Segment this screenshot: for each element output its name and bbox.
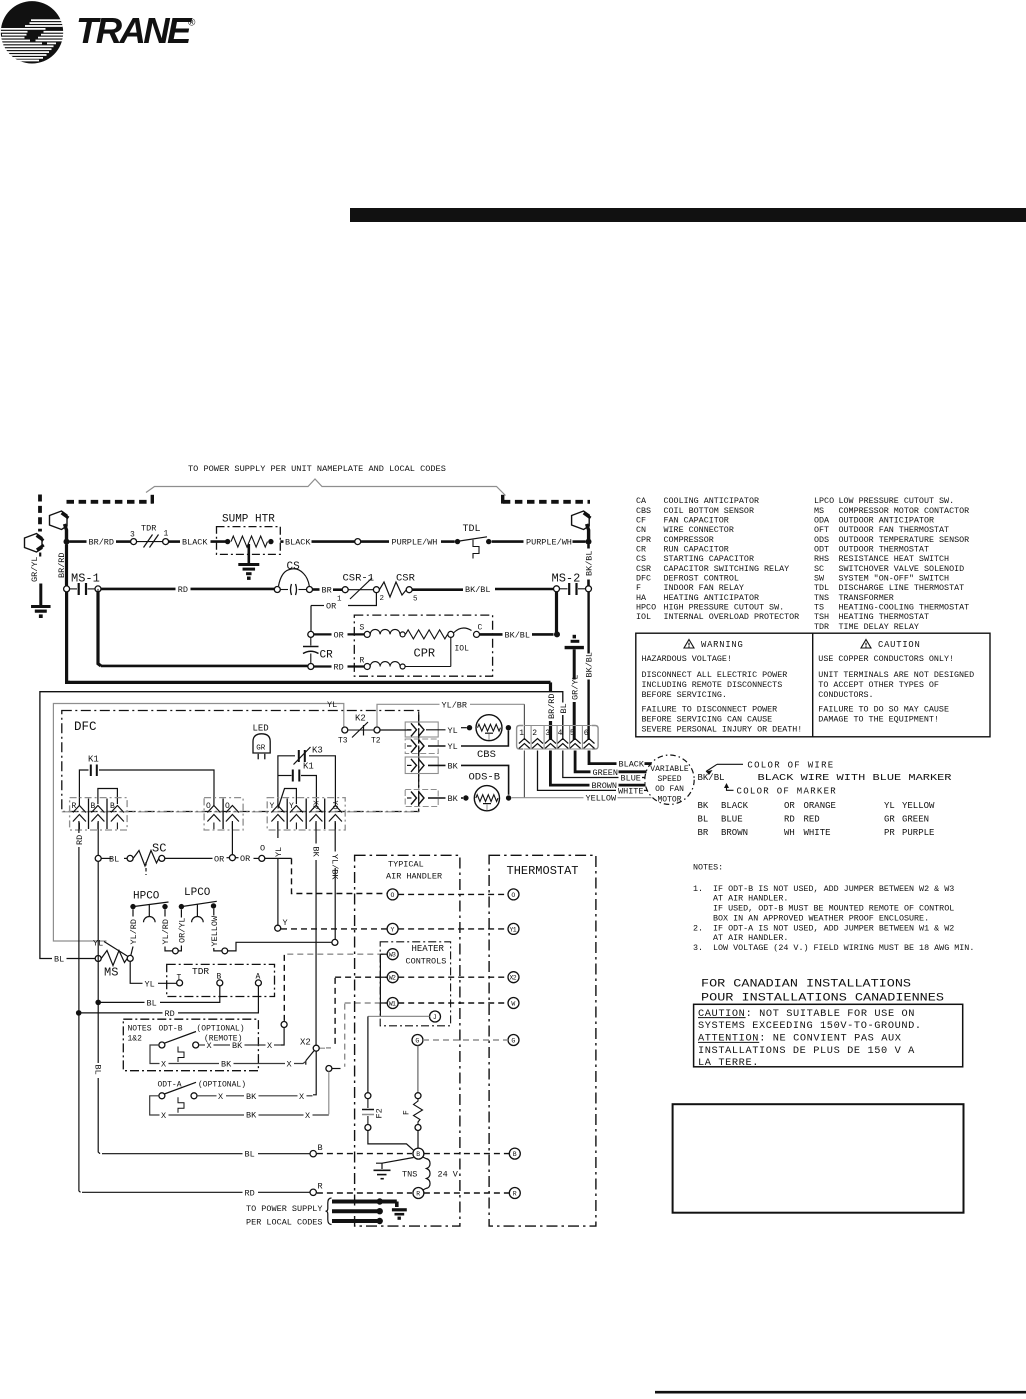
svg-text:LOW VOLTAGE (24 V.) FIELD WIRI: LOW VOLTAGE (24 V.) FIELD WIRING MUST BE…: [713, 943, 974, 953]
svg-text:(OPTIONAL): (OPTIONAL): [198, 1081, 246, 1090]
svg-text:OR: OR: [784, 801, 795, 811]
svg-text:ODS-B: ODS-B: [469, 772, 501, 784]
wire YL row1 (K2 to CBS): [380, 726, 467, 736]
svg-text:BLACK: BLACK: [182, 538, 208, 548]
sensor CBS (coil bottom sensor): [467, 715, 511, 761]
svg-text:SPEED: SPEED: [657, 775, 681, 784]
svg-text:OUTDOOR THERMOSTAT: OUTDOOR THERMOSTAT: [839, 545, 929, 555]
svg-text:TO POWER SUPPLY: TO POWER SUPPLY: [246, 1204, 323, 1214]
svg-text:2.: 2.: [693, 923, 703, 933]
svg-text:YO: YO: [330, 801, 338, 811]
svg-text:TS: TS: [814, 602, 824, 612]
svg-text:CN: CN: [636, 525, 646, 535]
thermostat terminal G: [508, 1035, 519, 1046]
wire YL (MS to TDR T): [130, 961, 176, 989]
svg-text:O: O: [206, 802, 211, 811]
blank approval box: [673, 1104, 964, 1213]
svg-text:GR/YL: GR/YL: [30, 556, 40, 582]
svg-text:DISCONNECT ALL ELECTRIC POWER: DISCONNECT ALL ELECTRIC POWER: [642, 670, 788, 680]
node Y field splice: [275, 918, 288, 931]
svg-text:UNIT TERMINALS ARE NOT DESIGNE: UNIT TERMINALS ARE NOT DESIGNED: [818, 670, 974, 680]
svg-text:BK/BL: BK/BL: [465, 585, 491, 595]
svg-text:BR/RD: BR/RD: [89, 538, 115, 548]
air handler terminal J: [430, 1011, 441, 1022]
svg-text:TNS: TNS: [402, 1170, 417, 1180]
Canadian installations caution box: [694, 979, 963, 1070]
svg-text:K1: K1: [303, 762, 314, 772]
svg-text:2: 2: [380, 595, 385, 603]
fuse F2: [362, 1093, 385, 1131]
svg-text:YL/RD: YL/RD: [129, 919, 139, 945]
svg-text:FAN CAPACITOR: FAN CAPACITOR: [664, 516, 729, 526]
thermostat terminal W: [508, 998, 519, 1009]
svg-text:FOR CANADIAN INSTALLATIONS: FOR CANADIAN INSTALLATIONS: [701, 979, 911, 991]
air handler box (TYPICAL AIR HANDLER): [355, 855, 460, 1226]
capacitor CR (run capacitor): [303, 631, 333, 669]
time delay relay TDR box: [167, 964, 275, 996]
wire YELLOW (LPCO right to YO splice): [210, 909, 222, 951]
wire (F to terminal B): [417, 1131, 419, 1149]
svg-text:BK/BL: BK/BL: [585, 652, 595, 678]
DFC box right edge through connectors: [418, 712, 420, 811]
wire PURPLE/WH (TDL to supply right): [492, 538, 586, 548]
thermostat TDL (discharge line thermostat): [455, 524, 492, 559]
svg-text:BK/BL: BK/BL: [505, 630, 531, 640]
svg-text:TDL: TDL: [814, 583, 829, 593]
wire Y dashed (to air handler Y): [281, 928, 387, 930]
svg-text:Y1: Y1: [510, 926, 517, 933]
ground (power supply): [392, 1210, 407, 1220]
svg-text:CPR: CPR: [414, 647, 436, 661]
svg-text:1.: 1.: [693, 884, 703, 894]
wire J (J terminal to F2 fuse): [368, 1016, 430, 1092]
svg-text:SYSTEM "ON-OFF" SWITCH: SYSTEM "ON-OFF" SWITCH: [839, 573, 950, 583]
svg-text:BLACK WIRE WITH BLUE MARKER: BLACK WIRE WITH BLUE MARKER: [758, 773, 953, 783]
wire X-BK-X (ODT-B row1): [199, 1041, 281, 1051]
air handler terminal W3: [387, 949, 398, 960]
svg-text:W2: W2: [389, 975, 396, 982]
svg-text:USE COPPER CONDUCTORS ONLY!: USE COPPER CONDUCTORS ONLY!: [818, 654, 954, 664]
svg-text:Y: Y: [270, 802, 275, 811]
wire OR (CR to CPR S): [314, 630, 364, 640]
node RD junction (to TDR A): [76, 1010, 82, 1016]
svg-text:SC: SC: [814, 564, 824, 574]
wire YL (Y terminal down to field Y): [274, 821, 284, 925]
svg-text:SC: SC: [152, 842, 166, 856]
wire BL (to field B terminal): [102, 1150, 310, 1160]
thermostat terminal B: [509, 1148, 520, 1159]
thermostat terminal X2: [508, 972, 519, 983]
svg-text:F2: F2: [375, 1108, 385, 1118]
svg-text:F: F: [403, 1110, 412, 1115]
svg-text:RHS: RHS: [814, 554, 829, 564]
switch MS (defrost relay contact): [95, 951, 133, 980]
svg-text:TRANE: TRANE: [76, 10, 193, 51]
svg-text:INSTALLATIONS DE PLUS DE 150 V: INSTALLATIONS DE PLUS DE 150 V A: [698, 1045, 915, 1057]
svg-text:IOL: IOL: [636, 612, 651, 622]
svg-text:PURPLE: PURPLE: [902, 828, 934, 838]
svg-text:MOTOR: MOTOR: [657, 795, 681, 804]
wire BR/RD vertical (supply to MS-1): [57, 544, 67, 586]
relay contact K2 (T3-T2): [338, 714, 381, 746]
sump heater box (SUMP HTR): [217, 514, 281, 555]
svg-text:CBS: CBS: [477, 749, 496, 761]
thermostat box (THERMOSTAT): [489, 855, 596, 1226]
TDR terminal A: [255, 973, 261, 986]
svg-text:1: 1: [164, 530, 169, 539]
svg-text:X: X: [305, 1111, 310, 1121]
wire W1 dashed (air handler to thermostat W): [398, 1002, 508, 1004]
svg-text:CONTROLS: CONTROLS: [406, 957, 447, 967]
svg-text:CONDUCTORS.: CONDUCTORS.: [818, 690, 873, 700]
thermostat terminal R: [509, 1188, 520, 1199]
svg-text:BL: BL: [559, 703, 569, 713]
svg-text:TDR: TDR: [192, 966, 209, 977]
svg-text:HPCO: HPCO: [133, 891, 160, 903]
svg-text:YL/BR: YL/BR: [442, 700, 468, 710]
svg-text:RD: RD: [784, 814, 795, 824]
wire BROWN (plug 3 to motor): [550, 751, 645, 792]
wire OR (CSR-1 pin2 to CR): [311, 593, 376, 632]
svg-text:OD FAN: OD FAN: [655, 785, 684, 794]
transformer TNS (24 V secondary): [402, 1157, 459, 1190]
svg-text:RD: RD: [165, 1009, 175, 1019]
svg-text:WHITE: WHITE: [618, 786, 644, 796]
svg-text:24 V: 24 V: [438, 1170, 459, 1180]
svg-text:W3: W3: [389, 952, 396, 959]
svg-text:DFC: DFC: [636, 573, 651, 583]
relay contact K1 (Y to X2): [278, 762, 317, 806]
svg-text:: NE CONVIENT PAS AUX: : NE CONVIENT PAS AUX: [759, 1033, 901, 1045]
connector CN pair row4: [405, 790, 438, 807]
svg-text:HEATING ANTICIPATOR: HEATING ANTICIPATOR: [664, 593, 760, 603]
svg-text:K1: K1: [88, 755, 99, 765]
node W3 field splice: [281, 1022, 287, 1028]
wire power L1 (thick): [332, 1198, 397, 1207]
relay coil CSR (pin 5): [379, 573, 418, 604]
svg-text:6: 6: [584, 729, 589, 738]
wire BK/BL (CPR C to MS-2 node): [480, 630, 554, 640]
Trane logo circle emblem: [0, 1, 63, 63]
dashed supply lead left vertical: [38, 495, 42, 532]
dashed supply lead left horizontal: [67, 495, 153, 504]
svg-text:HEATING THERMOSTAT: HEATING THERMOSTAT: [839, 612, 929, 622]
svg-text:BLUE: BLUE: [621, 774, 641, 784]
air handler terminal R: [413, 1188, 424, 1199]
wire BK row4 (connector to ODS-B left): [428, 794, 463, 804]
svg-text:STARTING CAPACITOR: STARTING CAPACITOR: [664, 554, 754, 564]
legend abbreviation table: [636, 496, 969, 632]
sensor ODS-B (outdoor temperature sensor): [463, 772, 511, 811]
svg-text:K3: K3: [312, 746, 323, 756]
svg-text:NOTES: NOTES: [128, 1025, 152, 1034]
svg-text:OR: OR: [214, 854, 224, 864]
warning and caution boxes: [636, 633, 990, 737]
svg-text:T3: T3: [338, 737, 348, 746]
notes list: [693, 863, 974, 954]
svg-text:®: ®: [188, 18, 196, 29]
svg-text:BK: BK: [232, 1041, 243, 1051]
svg-text:AIR HANDLER: AIR HANDLER: [386, 872, 442, 882]
svg-text:RD: RD: [334, 663, 344, 673]
wire RD (RD run to CR bottom and CPR R): [101, 663, 364, 673]
svg-text:BL: BL: [147, 998, 157, 1008]
wire (W3 splice down to ODT-B): [281, 1028, 284, 1046]
svg-text:WARNING: WARNING: [701, 640, 744, 650]
switch X2 (outdoor thermostat selector): [300, 1038, 319, 1065]
DFC terminal strip Y-Y-X2-YO: [267, 798, 345, 830]
svg-text:SUMP HTR: SUMP HTR: [222, 514, 275, 526]
svg-text:5: 5: [413, 596, 418, 604]
svg-text:CS: CS: [287, 561, 301, 573]
svg-text:LED: LED: [253, 724, 269, 734]
wire GR/YL vertical (ground to plug 5): [570, 649, 580, 740]
svg-text:IF USED, ODT-B MUST BE MOUNTED: IF USED, ODT-B MUST BE MOUNTED REMOTE OF…: [713, 904, 954, 914]
svg-text:X: X: [287, 1060, 292, 1070]
wire GREEN (plug 5 to motor): [575, 751, 646, 778]
outdoor thermostat ODT-A (labels, no box): [158, 1081, 247, 1090]
svg-text:BL: BL: [698, 814, 709, 824]
svg-text:GR: GR: [884, 814, 895, 824]
svg-text:COMPRESSOR MOTOR CONTACTOR: COMPRESSOR MOTOR CONTACTOR: [839, 506, 970, 516]
svg-text:BL: BL: [245, 1150, 255, 1160]
brace (power supply wires): [326, 1198, 332, 1225]
svg-text:TDR: TDR: [141, 524, 156, 534]
wire Y dashed (air handler to thermostat Y1): [398, 928, 508, 930]
wire BLACK (sump heater to splice): [280, 538, 354, 548]
air handler terminal W2: [387, 972, 398, 983]
svg-text:IOL: IOL: [455, 645, 470, 654]
svg-text:BK: BK: [698, 801, 709, 811]
svg-text:YL: YL: [448, 726, 458, 736]
svg-text:POUR INSTALLATIONS CANADIENNES: POUR INSTALLATIONS CANADIENNES: [701, 993, 944, 1005]
svg-text:ODT-A: ODT-A: [158, 1081, 182, 1090]
color of wire legend: [698, 760, 953, 838]
svg-text:BK: BK: [448, 794, 459, 804]
switch ODT-A contact: [159, 1082, 197, 1113]
contactor MS-1 contact: [64, 572, 101, 596]
wire O (solid then dashed to air handler O): [265, 858, 387, 893]
node YL/BK splice: [332, 939, 338, 945]
contact TDR 3-1 (time delay relay contact): [130, 524, 169, 548]
TDR terminal T: [177, 974, 183, 986]
svg-text:HA: HA: [636, 593, 647, 603]
svg-text:DISCHARGE LINE THERMOSTAT: DISCHARGE LINE THERMOSTAT: [839, 583, 965, 593]
svg-text:W1: W1: [389, 1000, 396, 1007]
svg-text:F: F: [636, 583, 641, 593]
svg-text:BR: BR: [698, 828, 709, 838]
node BL at SC row: [95, 855, 101, 861]
svg-text:OFT: OFT: [814, 525, 829, 535]
svg-text:B: B: [91, 802, 96, 811]
svg-text:YL: YL: [145, 979, 155, 989]
svg-text:RD: RD: [75, 835, 85, 845]
svg-text:ORANGE: ORANGE: [804, 801, 836, 811]
wire (X2 down to ODT-A row1): [313, 1051, 316, 1095]
wire YELLOW (ODS-B and plug 1 to motor): [512, 751, 652, 804]
resistor sump heater element: [225, 536, 274, 547]
svg-text:CSR-1: CSR-1: [343, 573, 375, 585]
svg-text:CAUTION: CAUTION: [878, 640, 921, 650]
connector CN pair row2: [405, 739, 438, 754]
wire RD (R terminal down to field R): [75, 821, 85, 1192]
svg-text:BLUE: BLUE: [721, 814, 743, 824]
svg-text:S: S: [360, 624, 365, 633]
svg-text:B: B: [318, 1143, 323, 1153]
svg-text:INTERNAL OVERLOAD PROTECTOR: INTERNAL OVERLOAD PROTECTOR: [664, 612, 800, 622]
svg-text:BROWN: BROWN: [721, 828, 748, 838]
svg-text:LPCO: LPCO: [814, 496, 834, 506]
svg-text:CSR: CSR: [636, 564, 651, 574]
node splice CN on black/purple wire: [355, 539, 361, 545]
wire BLACK (TDR to sump heater): [169, 538, 228, 548]
svg-text:COOLING ANTICIPATOR: COOLING ANTICIPATOR: [664, 496, 760, 506]
svg-text:HPCO: HPCO: [636, 602, 656, 612]
svg-text:CA: CA: [636, 496, 647, 506]
svg-text:BROWN: BROWN: [592, 781, 618, 791]
svg-text:MS: MS: [814, 506, 824, 516]
svg-text:LOW PRESSURE CUTOUT SW.: LOW PRESSURE CUTOUT SW.: [839, 496, 955, 506]
wire YELLOW (splice to YO circle): [228, 942, 332, 951]
svg-text:X2: X2: [311, 801, 319, 810]
thermostat terminal Y1: [508, 923, 519, 934]
wire (W1 splice down to ODT-A row2): [328, 1072, 330, 1115]
svg-text:BL: BL: [93, 1065, 103, 1075]
ground (sump heater): [238, 544, 259, 580]
dashed supply lead right horizontal: [503, 495, 590, 504]
svg-text:TNS: TNS: [814, 593, 829, 603]
wire BK row3 (connector to ODS-B right): [428, 761, 509, 794]
wire YL/RD (HPCO right to LPCO splice): [161, 909, 173, 951]
svg-text:COLOR OF WIRE: COLOR OF WIRE: [747, 760, 834, 770]
contactor MS-2 contact: [552, 572, 592, 596]
svg-text:OR: OR: [240, 854, 250, 864]
ground GR/YL (chassis ground above GR/YL lead): [565, 635, 584, 648]
svg-text:BK: BK: [246, 1092, 257, 1102]
compressor CPR run winding R: [360, 637, 451, 669]
wire YL/BR (K2 T2 up and over to plug 1): [377, 700, 524, 740]
svg-text:K2: K2: [355, 714, 366, 724]
svg-text:O: O: [225, 802, 230, 811]
svg-text:INDOOR FAN RELAY: INDOOR FAN RELAY: [664, 583, 744, 593]
svg-text:SW: SW: [814, 573, 825, 583]
svg-text:PER LOCAL CODES: PER LOCAL CODES: [246, 1218, 323, 1228]
svg-text:X: X: [267, 1041, 272, 1051]
wire R dashed (field R to air handler R): [317, 1192, 412, 1194]
switch ODT-B contact: [159, 1032, 199, 1063]
thermostat terminal O: [508, 889, 519, 900]
svg-text:YL/RD: YL/RD: [161, 919, 171, 945]
svg-text:1: 1: [337, 596, 342, 604]
svg-text:YELLOW: YELLOW: [586, 794, 618, 804]
svg-text:TO ACCEPT OTHER TYPES OF: TO ACCEPT OTHER TYPES OF: [818, 680, 939, 690]
node R field terminal: [310, 1182, 323, 1196]
wire R dashed (air handler to thermostat R): [424, 1192, 509, 1194]
svg-text:IF ODT-A IS NOT USED, ADD JUMP: IF ODT-A IS NOT USED, ADD JUMPER BETWEEN…: [713, 923, 954, 933]
wire BK/BL vertical (supply to MS-2): [585, 544, 595, 585]
svg-text:FAILURE TO DO SO MAY CAUSE: FAILURE TO DO SO MAY CAUSE: [818, 705, 949, 715]
svg-text:BK: BK: [448, 761, 459, 771]
terminal strip wire stubs: [79, 823, 335, 830]
wire (MS-1 load side down to RD run): [98, 592, 306, 666]
svg-text:BEFORE SERVICING.: BEFORE SERVICING.: [642, 690, 727, 700]
capacitor CS (starting capacitor): [274, 561, 312, 595]
wire BL (B terminal down to field B): [97, 821, 99, 856]
wire OR (SC to O terminal circle): [165, 854, 230, 864]
wire BL continued down: [93, 861, 103, 1153]
wire RD (MS-1 to CS): [98, 585, 274, 595]
svg-text:B: B: [110, 802, 115, 811]
svg-text:VARIABLE: VARIABLE: [650, 765, 689, 774]
TDR terminal B: [217, 973, 223, 986]
switch SC (switchover valve solenoid): [101, 842, 166, 876]
svg-text:HAZARDOUS VOLTAGE!: HAZARDOUS VOLTAGE!: [642, 654, 732, 664]
svg-text:R: R: [72, 802, 77, 811]
node B field terminal: [310, 1143, 323, 1157]
svg-text:CBS: CBS: [636, 506, 651, 516]
svg-text:BL: BL: [109, 854, 119, 864]
svg-text:OUTDOOR TEMPERATURE SENSOR: OUTDOOR TEMPERATURE SENSOR: [839, 535, 970, 545]
wire power L3 (thick): [332, 1218, 383, 1224]
svg-text:HIGH PRESSURE CUTOUT SW.: HIGH PRESSURE CUTOUT SW.: [664, 602, 785, 612]
svg-text:SWITCHOVER VALVE SOLENOID: SWITCHOVER VALVE SOLENOID: [839, 564, 965, 574]
svg-text:BK: BK: [246, 1111, 257, 1121]
field splice connector (far left): [25, 534, 44, 553]
wire X-BK-X (ODT-A row2): [150, 1096, 329, 1121]
svg-text:5: 5: [570, 729, 575, 738]
air handler terminal O: [387, 889, 398, 900]
svg-text:X2: X2: [300, 1038, 311, 1048]
air handler terminal B: [413, 1148, 424, 1159]
svg-text:4: 4: [558, 729, 563, 738]
svg-text:: NOT SUITABLE FOR USE ON: : NOT SUITABLE FOR USE ON: [746, 1008, 915, 1020]
wire YL/RD (HPCO left to MS): [129, 909, 139, 955]
svg-text:YELLOW: YELLOW: [210, 915, 220, 947]
wire GR/YL (left earth lead): [30, 553, 41, 606]
connector CN pair row3: [405, 757, 438, 774]
motor (VARIABLE SPEED OD FAN MOTOR): [645, 755, 694, 804]
svg-text:FAILURE TO DISCONNECT POWER: FAILURE TO DISCONNECT POWER: [642, 705, 778, 715]
svg-text:BLACK: BLACK: [721, 801, 749, 811]
svg-text:SYSTEMS EXCEEDING 150V-TO-GROU: SYSTEMS EXCEEDING 150V-TO-GROUND.: [698, 1020, 922, 1032]
svg-text:X: X: [161, 1060, 166, 1070]
svg-text:CAPACITOR SWITCHING RELAY: CAPACITOR SWITCHING RELAY: [664, 564, 790, 574]
svg-text:RD: RD: [245, 1188, 255, 1198]
wire BK/BL (CSR to MS-2): [412, 585, 553, 595]
svg-text:TDL: TDL: [463, 524, 481, 535]
svg-text:O: O: [260, 844, 265, 854]
svg-text:YL: YL: [274, 847, 284, 857]
wire WHITE (plug 2 to motor): [538, 751, 648, 797]
svg-text:BR/RD: BR/RD: [57, 552, 67, 578]
svg-text:Y: Y: [283, 918, 288, 928]
wire BLACK (plug 6 to motor): [589, 751, 652, 770]
wire RD (RD run to TDR A): [81, 986, 258, 1019]
field splice connector (right supply): [572, 511, 591, 542]
wire BK (X2 terminal down to X2 switch): [310, 821, 320, 1045]
svg-text:GREEN: GREEN: [902, 814, 929, 824]
svg-text:HEATING-COOLING THERMOSTAT: HEATING-COOLING THERMOSTAT: [839, 602, 970, 612]
compressor CPR start winding S: [360, 624, 448, 639]
svg-text:WHITE: WHITE: [804, 828, 831, 838]
wire B dashed (air handler to thermostat B): [424, 1153, 509, 1155]
wire BR/RD (supply to TDR contact): [69, 538, 131, 548]
svg-text:RUN CAPACITOR: RUN CAPACITOR: [664, 545, 729, 555]
wire B dashed (field B to air handler B): [317, 1153, 412, 1155]
air handler terminal G: [412, 1035, 423, 1046]
wire X-BK-X (ODT-B row2): [150, 1045, 306, 1070]
header divider bar: [350, 208, 1026, 222]
